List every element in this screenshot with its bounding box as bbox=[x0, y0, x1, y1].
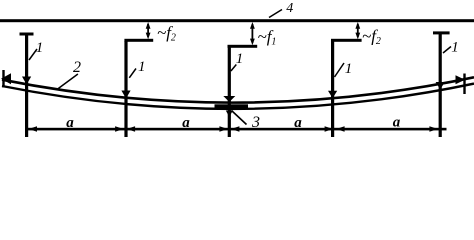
svg-text:a: a bbox=[182, 115, 190, 131]
svg-text:2: 2 bbox=[73, 59, 81, 76]
svg-text:1: 1 bbox=[138, 59, 146, 75]
svg-text:4: 4 bbox=[286, 1, 293, 16]
svg-text:a: a bbox=[393, 115, 401, 131]
svg-text:1: 1 bbox=[451, 40, 459, 56]
svg-text:1: 1 bbox=[36, 40, 44, 56]
svg-text:a: a bbox=[66, 115, 74, 131]
svg-text:1: 1 bbox=[236, 51, 244, 67]
svg-text:a: a bbox=[294, 115, 302, 131]
svg-text:1: 1 bbox=[345, 61, 353, 77]
